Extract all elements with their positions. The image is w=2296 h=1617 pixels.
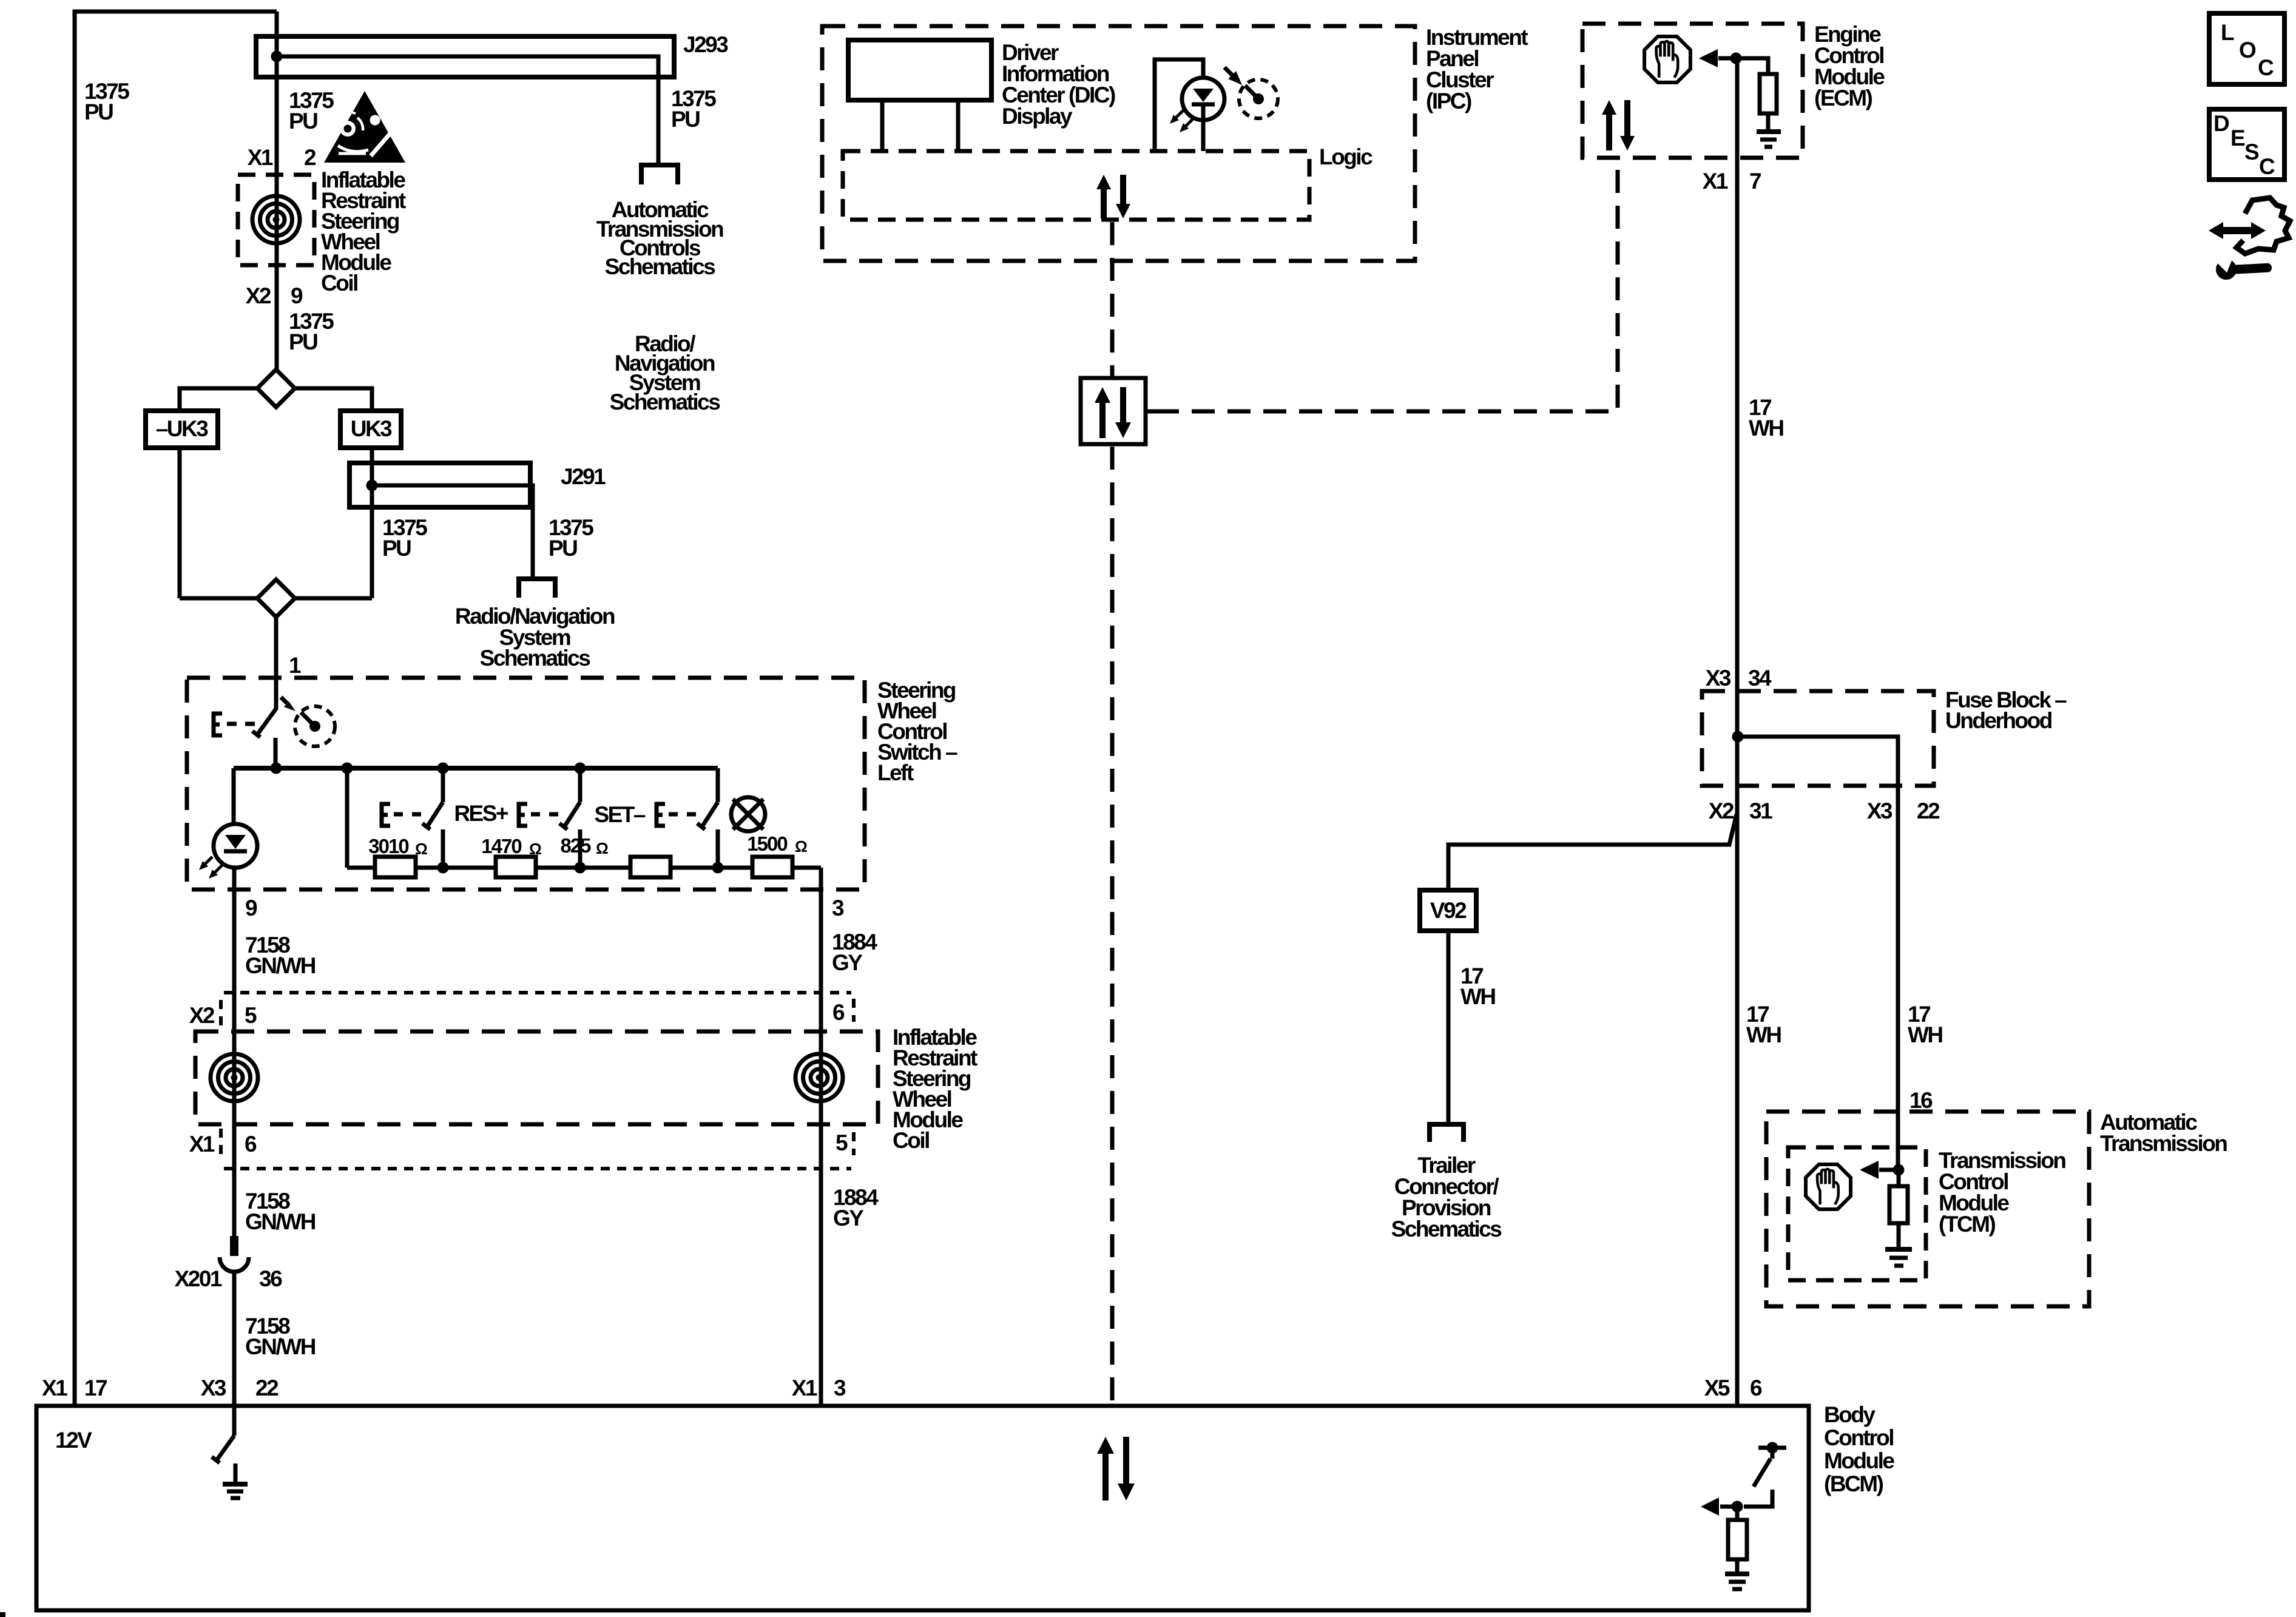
svg-text:GY: GY (833, 1206, 864, 1230)
svg-text:31: 31 (1749, 798, 1772, 823)
svg-text:(IPC): (IPC) (1426, 89, 1471, 113)
svg-text:PU: PU (382, 536, 411, 561)
LED indicator in IPC (1182, 78, 1224, 120)
svg-text:Display: Display (1002, 104, 1073, 129)
switch dashes switch2 RES+ (531, 812, 558, 817)
connector plane X1 (dotted) (224, 1167, 851, 1170)
wire fuse block to TCM (1896, 786, 1900, 1170)
svg-text:J291: J291 (561, 464, 606, 489)
gauge needle (301, 712, 315, 726)
svg-text:X1: X1 (1703, 169, 1728, 194)
node switch1 lower (437, 862, 449, 874)
svg-text:Coil: Coil (893, 1128, 929, 1153)
ground in TCM (1885, 1247, 1912, 1252)
resistor 825 (630, 857, 670, 877)
airbag warning triangle icon (324, 91, 405, 163)
svg-text:Control: Control (1824, 1425, 1893, 1450)
transmission control module box (1788, 1147, 1926, 1280)
resistor 3010 (375, 857, 416, 877)
gauge pointer arrow (281, 697, 287, 703)
service icon wrench (2213, 254, 2272, 280)
switch blade switch1 (427, 802, 443, 828)
svg-text:16: 16 (1909, 1088, 1933, 1113)
switch stub from rail switch1 (441, 768, 445, 802)
BCM pull-down resistor (1735, 1507, 1740, 1520)
instrument panel cluster (IPC) box (822, 26, 1415, 261)
svg-text:UK3: UK3 (351, 416, 392, 441)
ground in BCM right (1725, 1571, 1749, 1576)
fuse block - underhood box (1702, 691, 1934, 786)
off-page connector to radio/navigation (519, 579, 555, 598)
backlight lamp circle-X (731, 797, 765, 831)
svg-text:1470: 1470 (481, 835, 521, 857)
inline connector X201 male blade (230, 1236, 238, 1256)
option diamond (top) (257, 370, 295, 407)
main switch fixed contact E (212, 712, 222, 737)
wire left branch to -UK3 (180, 388, 261, 411)
serial data arrows in BCM (1097, 1437, 1135, 1501)
svg-text:X1: X1 (248, 145, 273, 170)
switch blade switch2 RES+ (564, 802, 580, 828)
option box V92 (1420, 890, 1476, 931)
svg-text:3: 3 (834, 1376, 846, 1400)
serial data arrows in logic (1096, 175, 1130, 218)
switch fixed contact E switch2 RES+ (517, 802, 527, 828)
svg-text:X2: X2 (1709, 798, 1734, 823)
engine control module (ECM) box (1582, 24, 1803, 158)
svg-text:3: 3 (832, 896, 844, 920)
svg-text:WH: WH (1746, 1022, 1781, 1047)
svg-text:X3: X3 (1867, 798, 1893, 823)
wire into switch box pin 1 (274, 617, 279, 710)
wire right branch to UK3 (291, 388, 372, 411)
svg-text:Schematics: Schematics (480, 646, 591, 670)
svg-text:X2: X2 (189, 1003, 215, 1028)
svg-text:PU: PU (84, 100, 113, 124)
svg-text:22: 22 (1917, 798, 1940, 823)
svg-text:1: 1 (289, 653, 301, 678)
clockspring coil (upper) (252, 196, 300, 243)
svg-text:Left: Left (877, 760, 914, 785)
svg-text:(TCM): (TCM) (1939, 1212, 1995, 1237)
svg-text:(ECM): (ECM) (1814, 86, 1872, 110)
main cruise on/off switch blade (257, 709, 276, 735)
wire -UK3 down (178, 448, 182, 598)
svg-text:PU: PU (289, 109, 317, 133)
svg-text:X1: X1 (189, 1132, 215, 1156)
internal rail (234, 766, 718, 771)
node TCM (1893, 1164, 1905, 1176)
signal arrow TCM (1879, 1168, 1899, 1172)
node rail 730 (437, 763, 449, 774)
node ECM (1730, 53, 1742, 64)
rail corner to SET- blade (716, 768, 720, 802)
serial data arrows in ECM (1602, 100, 1635, 150)
off-page connector trailer (1430, 1124, 1464, 1142)
wire UK3 down through J291 (370, 448, 374, 598)
svg-text:X2: X2 (246, 283, 271, 308)
svg-text:Schematics: Schematics (610, 390, 721, 414)
hand octagon icon TCM (1806, 1164, 1851, 1209)
wire splice to X3 22 branch (1738, 737, 1898, 786)
svg-text:34: 34 (1748, 666, 1772, 690)
svg-text:L: L (2221, 20, 2234, 45)
svg-text:17: 17 (84, 1376, 107, 1400)
node rail 572 (342, 763, 353, 774)
svg-text:825: 825 (560, 834, 591, 857)
gauge needle IPC (1245, 86, 1258, 99)
svg-text:RES+: RES+ (454, 801, 508, 826)
svg-text:Schematics: Schematics (1391, 1217, 1502, 1241)
svg-text:22: 22 (255, 1376, 279, 1400)
steering wheel control switch - left module box (187, 678, 865, 890)
svg-text:C: C (2259, 154, 2275, 179)
svg-text:2: 2 (304, 145, 316, 170)
serial data dashed line transceiver to BCM (1110, 447, 1115, 1403)
svg-text:Ω: Ω (415, 840, 428, 858)
service icon arrow (2209, 222, 2266, 239)
switch dashes switch1 (394, 812, 421, 817)
svg-text:X1: X1 (792, 1376, 817, 1400)
service icon outline (2237, 198, 2290, 254)
clockspring coil (lower right) (795, 1054, 843, 1101)
svg-text:D: D (2213, 111, 2229, 136)
serial data dashed line logic to transceiver (1110, 222, 1115, 376)
LOC legend box (2209, 13, 2284, 84)
svg-text:(BCM): (BCM) (1824, 1471, 1883, 1496)
transceiver arrows (1095, 387, 1131, 438)
svg-text:PU: PU (671, 107, 700, 132)
node rail 956 (575, 763, 586, 774)
svg-text:Body: Body (1824, 1402, 1876, 1427)
wire rail drop 572 (345, 768, 349, 868)
stray dot bottom left (0, 1612, 5, 1617)
splice pack J291 outer box (349, 463, 530, 507)
option box -UK3 (146, 411, 218, 448)
svg-text:SET–: SET– (594, 802, 645, 827)
ground in BCM left (234, 1463, 238, 1482)
ground in ECM (1757, 129, 1781, 134)
gauge icon (cruise) dashed circle (295, 706, 335, 746)
svg-text:6: 6 (1750, 1376, 1762, 1400)
svg-text:Underhood: Underhood (1945, 708, 2052, 733)
inflatable restraint steering wheel module coil (lower) box (195, 1031, 878, 1124)
clockspring coil (lower left) (211, 1054, 258, 1101)
svg-text:O: O (2239, 38, 2256, 62)
svg-text:GN/WH: GN/WH (245, 1209, 316, 1234)
switch dashes SET- (669, 812, 696, 817)
svg-text:1500: 1500 (747, 832, 787, 855)
switch lower stub switch1 (441, 829, 445, 868)
signal arrow BCM (1720, 1505, 1737, 1509)
wire 1375 PU left feed (75, 12, 277, 1406)
svg-text:PU: PU (289, 329, 317, 354)
TCM pull-down resistor (1897, 1170, 1901, 1186)
wire 7158 GN/WH long run upper (232, 868, 237, 1256)
option diamond (bottom) (257, 579, 295, 617)
LED indicator circle (214, 824, 257, 868)
svg-text:S: S (2244, 140, 2259, 164)
node fuse block splice (1732, 731, 1744, 743)
node SET- lower (712, 862, 724, 874)
node splice J293 (271, 51, 283, 62)
svg-text:PU: PU (549, 536, 577, 561)
wire below main switch (274, 738, 278, 768)
svg-text:Transmission: Transmission (2100, 1131, 2227, 1156)
svg-text:WH: WH (1460, 984, 1495, 1009)
svg-text:X201: X201 (175, 1266, 222, 1291)
wire 1884 GY long run to BCM (819, 868, 823, 1406)
DIC display box (848, 40, 991, 100)
svg-text:36: 36 (259, 1266, 282, 1291)
svg-text:6: 6 (245, 1132, 257, 1156)
LED diode triangle (225, 835, 246, 849)
transceiver right stub (1146, 410, 1156, 414)
svg-text:GN/WH: GN/WH (245, 953, 316, 978)
resistor ladder bottom wire (347, 866, 821, 870)
option box UK3 (340, 411, 401, 448)
svg-text:Ω: Ω (596, 839, 609, 857)
gauge icon IPC dashed circle (1239, 79, 1278, 118)
wire 7158 GN/WH long run lower (232, 1272, 237, 1406)
branch jog to V92 (1448, 814, 1737, 890)
node BCM right input (1732, 1501, 1743, 1513)
switch lower stub SET- (716, 829, 720, 868)
wire to top diamond split (274, 370, 279, 388)
splice pack J293 inner bus bar (277, 56, 658, 163)
svg-text:WH: WH (1908, 1022, 1942, 1047)
svg-text:C: C (2258, 55, 2274, 80)
svg-text:X3: X3 (1706, 666, 1731, 690)
svg-text:E: E (2230, 126, 2245, 150)
svg-text:9: 9 (245, 896, 257, 920)
svg-text:9: 9 (291, 283, 303, 308)
node switch2 RES+ lower (575, 862, 586, 874)
hand octagon icon ECM (1644, 36, 1690, 83)
gauge pointer arrow IPC (1224, 67, 1233, 76)
svg-text:3010: 3010 (368, 835, 408, 857)
splice pack J291 inner bus bar (372, 485, 533, 576)
off-page connector to automatic transmission controls (641, 165, 678, 184)
connector plane X2 (dotted) (224, 991, 851, 994)
svg-text:Logic: Logic (1319, 144, 1373, 169)
logic box (843, 151, 1309, 220)
switch fixed contact E switch1 (380, 802, 390, 828)
LED feed wire in IPC (1155, 59, 1203, 151)
svg-text:–UK3: –UK3 (156, 416, 209, 441)
DESC legend box (2209, 109, 2284, 180)
transceiver box (1081, 378, 1146, 444)
node splice J291 (366, 480, 378, 491)
svg-text:7: 7 (1749, 169, 1761, 194)
wire V92 to trailer connector (1447, 931, 1451, 1122)
svg-text:Ω: Ω (795, 837, 808, 856)
svg-text:GN/WH: GN/WH (245, 1334, 316, 1359)
resistor 1470 (496, 857, 536, 877)
serial data dashed line to ECM (1156, 161, 1618, 411)
svg-text:V92: V92 (1430, 898, 1467, 923)
svg-text:Schematics: Schematics (605, 254, 716, 279)
switch stub from rail switch2 RES+ (578, 768, 582, 802)
switch lower stub switch2 RES+ (578, 829, 582, 868)
svg-text:J293: J293 (683, 32, 728, 57)
svg-text:X3: X3 (201, 1376, 226, 1400)
switch blade SET- (701, 802, 718, 828)
splice pack J293 outer box (256, 36, 674, 77)
main switch dashes (227, 722, 255, 726)
svg-text:5: 5 (836, 1130, 848, 1155)
LED light arrows IPC (1175, 110, 1193, 127)
wire joining branches at bottom diamond (180, 596, 372, 601)
BCM internal switch (right) (1758, 1446, 1786, 1450)
LED light arrows (204, 857, 222, 874)
signal arrow ECM (1718, 56, 1736, 61)
wire rail to LED (232, 768, 236, 825)
body control module box (36, 1406, 1809, 1610)
ECM pull-up resistor (1736, 58, 1768, 74)
svg-text:5: 5 (245, 1003, 257, 1028)
inline connector X201 female cup (220, 1257, 249, 1272)
svg-text:X5: X5 (1704, 1376, 1730, 1400)
svg-text:Ω: Ω (529, 840, 542, 858)
svg-text:12V: 12V (55, 1428, 92, 1453)
DIC display legs (880, 100, 885, 151)
svg-text:WH: WH (1749, 416, 1783, 441)
svg-text:GY: GY (832, 950, 863, 975)
svg-text:Coil: Coil (321, 271, 357, 295)
svg-text:X1: X1 (42, 1376, 67, 1400)
BCM input switch blade (left) (232, 1406, 237, 1436)
automatic transmission box (1766, 1112, 2089, 1306)
node rail 455 (271, 763, 282, 774)
svg-text:Module: Module (1824, 1448, 1894, 1473)
svg-text:6: 6 (832, 1000, 845, 1025)
resistor 1500 (752, 857, 792, 877)
switch fixed contact E SET- (655, 802, 665, 828)
wire 17 WH main run ECM to BCM (1735, 58, 1740, 1406)
inflatable restraint steering wheel module coil (upper) box (238, 175, 314, 265)
wire from top into J293 and down to coil (275, 12, 279, 370)
